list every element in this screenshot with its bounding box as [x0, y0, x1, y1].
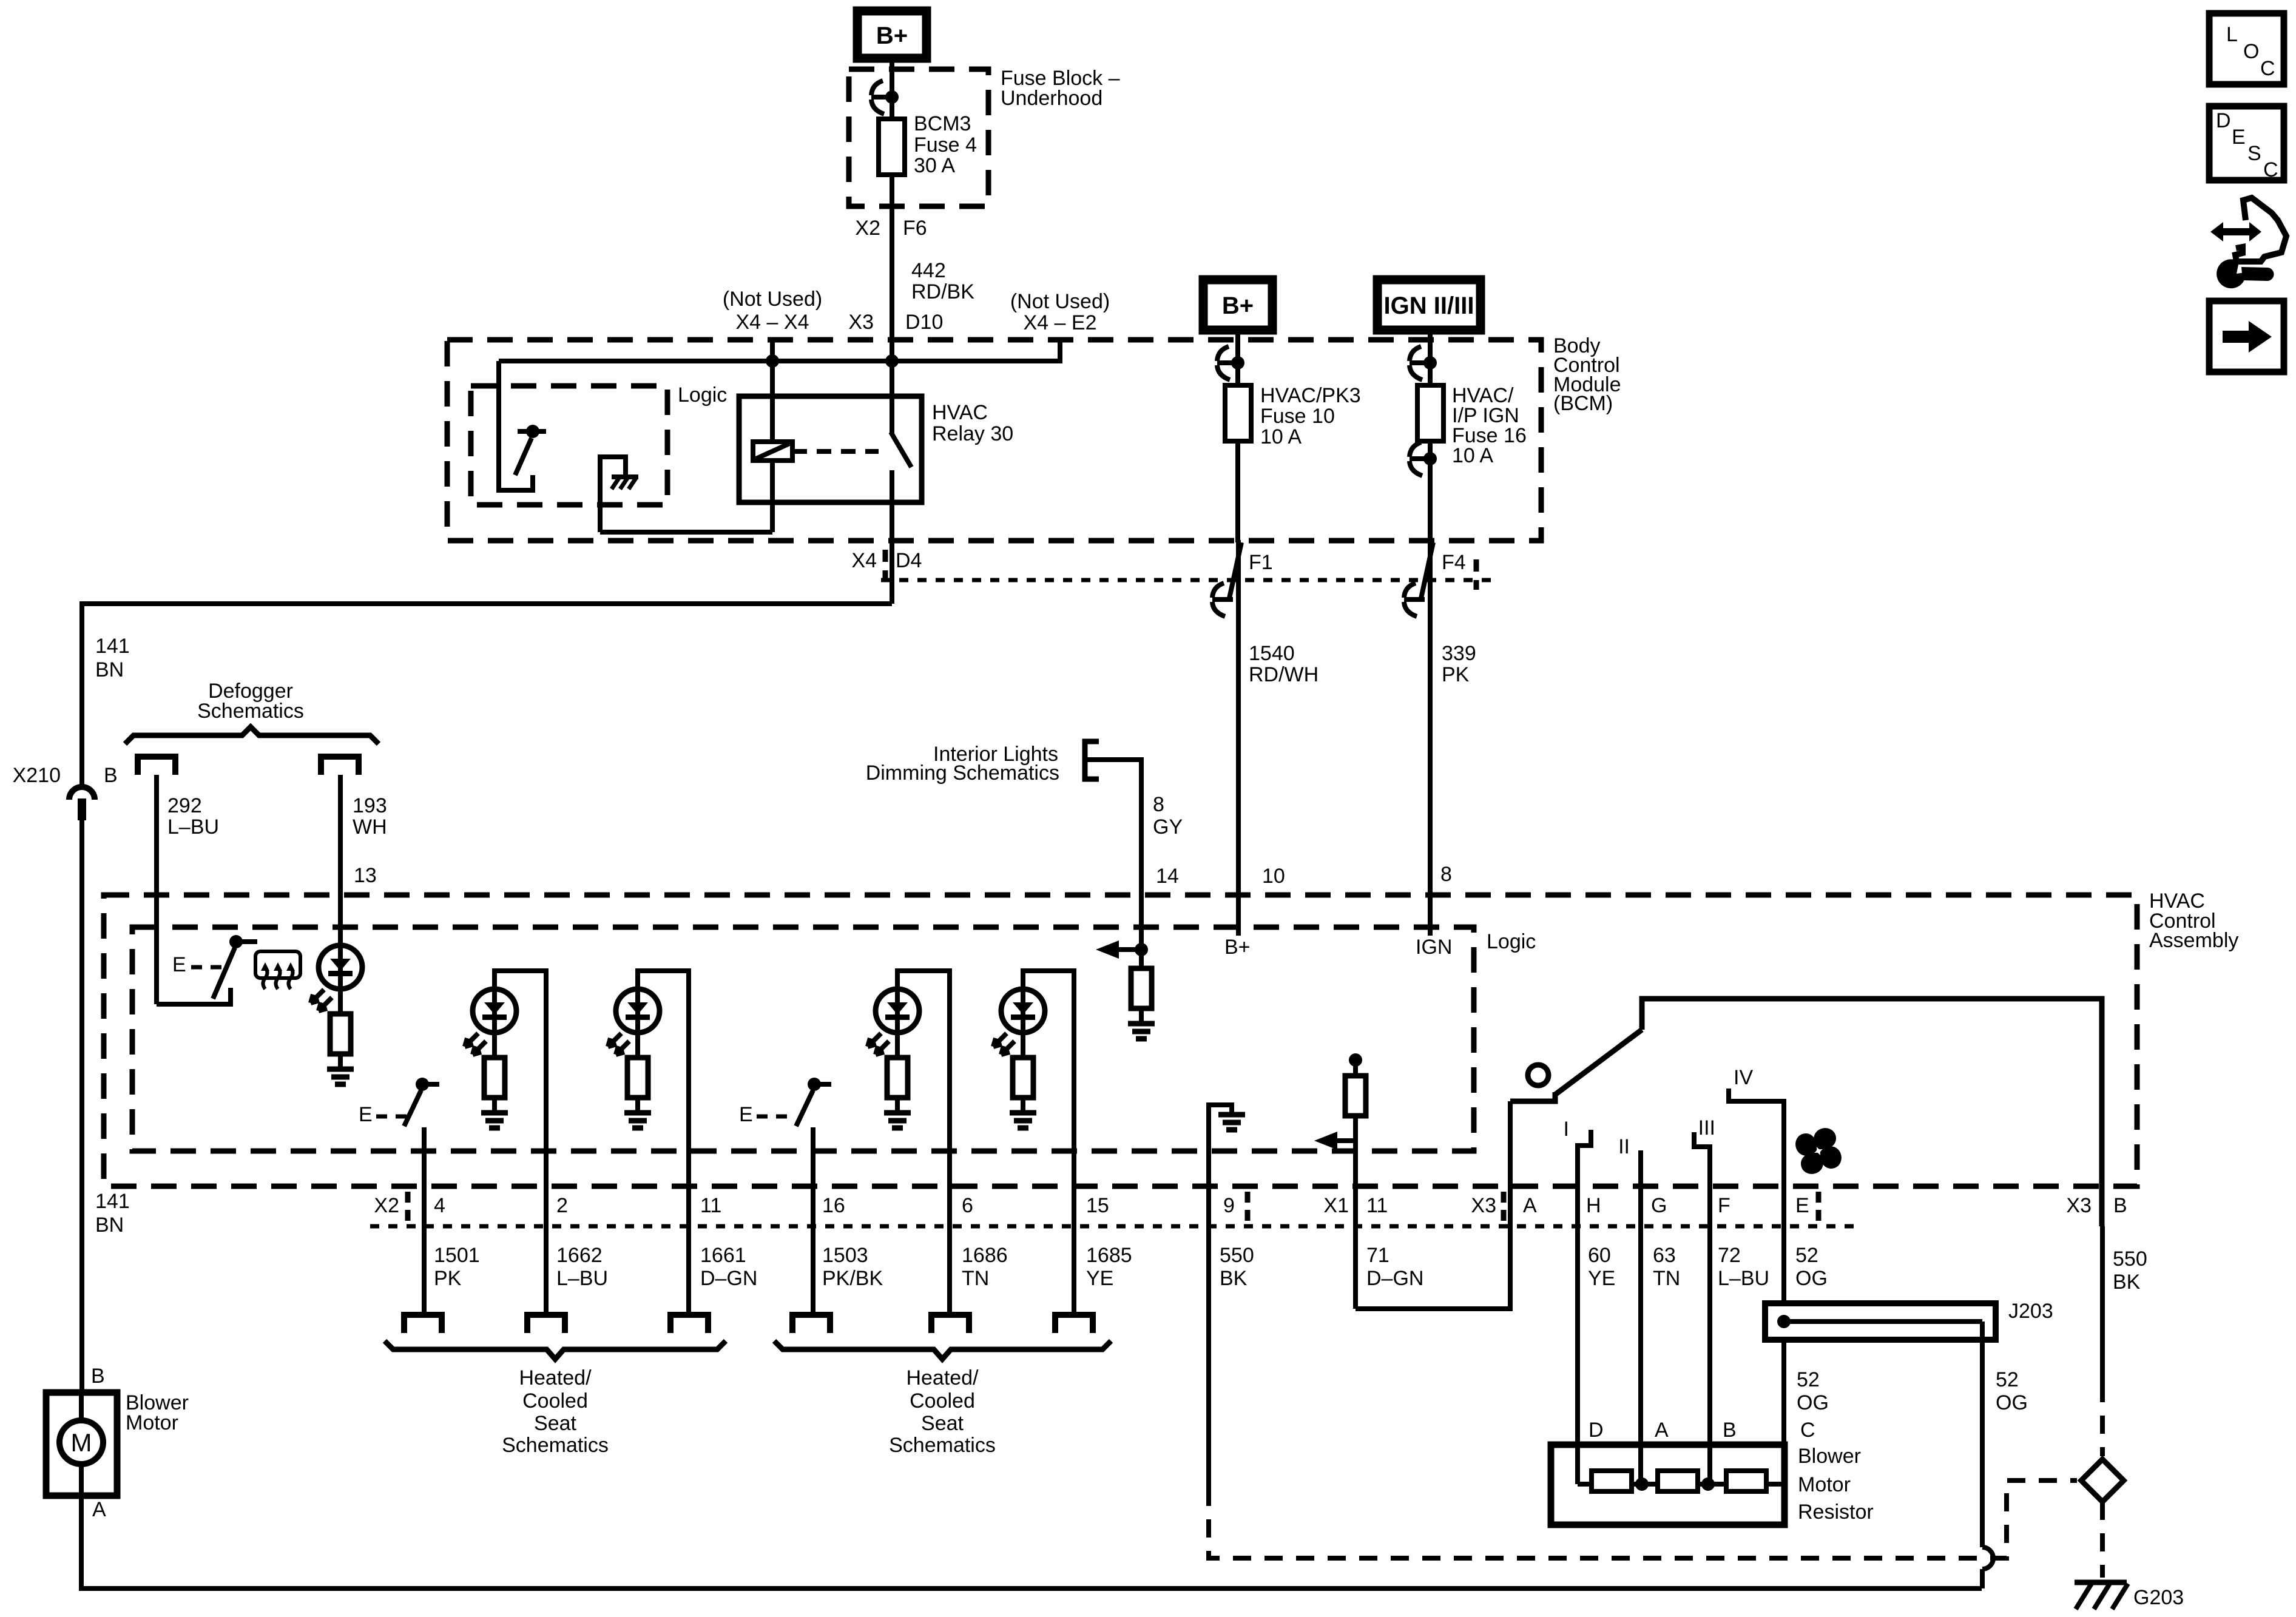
resistor X1-11 [1345, 1076, 1366, 1116]
svg-text:C: C [2260, 57, 2275, 80]
svg-text:Fuse 10: Fuse 10 [1260, 405, 1335, 428]
svg-text:(Not Used): (Not Used) [723, 288, 822, 311]
fuse BCM3 Fuse 4 30 A [879, 119, 905, 175]
terminal pin 6 [931, 1315, 969, 1333]
svg-text:X3: X3 [2066, 1194, 2092, 1217]
svg-text:10 A: 10 A [1260, 425, 1302, 448]
svg-text:63: 63 [1653, 1244, 1676, 1267]
svg-text:Heated/: Heated/ [519, 1366, 592, 1389]
switch for pin 4 [404, 1078, 439, 1312]
svg-text:E: E [1795, 1194, 1809, 1217]
svg-text:OG: OG [1996, 1391, 2028, 1414]
bracket for interior lights [1085, 741, 1099, 779]
svg-text:Blower: Blower [1798, 1445, 1861, 1468]
wire 550 BK right (pin B) [2100, 1226, 2105, 1384]
svg-text:G: G [1651, 1194, 1667, 1217]
wire 8 GY [1085, 760, 1141, 950]
blower motor box [46, 1393, 117, 1496]
svg-text:I: I [1564, 1118, 1569, 1141]
resistor LED4 [1013, 1058, 1033, 1098]
LOC icon box [2209, 13, 2284, 84]
wire LED4 to resistor [1021, 1033, 1025, 1058]
wire hop to bottom bus [1980, 1569, 1985, 1588]
svg-text:Relay 30: Relay 30 [932, 422, 1013, 445]
wire to ground [1021, 1098, 1025, 1110]
terminal pin 15 [1055, 1315, 1093, 1333]
svg-text:J203: J203 [2008, 1300, 2053, 1323]
terminal pin 2 [527, 1315, 565, 1333]
ground LED4 [1010, 1113, 1036, 1128]
indicator LED 4 loop [1023, 971, 1074, 1312]
relay switch [891, 361, 911, 604]
svg-text:X210: X210 [13, 764, 61, 787]
svg-text:E: E [2232, 126, 2246, 149]
splice J203 [1765, 1303, 1996, 1340]
svg-text:Schematics: Schematics [889, 1434, 996, 1457]
svg-text:Logic: Logic [678, 383, 727, 407]
splice diamond [2081, 1459, 2124, 1502]
svg-text:A: A [92, 1498, 106, 1521]
Blower Motor Resistor box [1551, 1445, 1784, 1525]
svg-text:8: 8 [1440, 863, 1452, 886]
svg-text:O: O [2243, 40, 2259, 63]
contact I [1578, 1130, 1591, 1226]
ground run dashed wire [1209, 1480, 2077, 1558]
wire to ground [635, 1098, 640, 1110]
resistor LED1 [484, 1058, 505, 1098]
logic output resistor branch [1349, 1053, 1362, 1067]
svg-text:L–BU: L–BU [167, 815, 219, 839]
svg-text:C: C [2263, 158, 2278, 181]
clip at fuse 16 bottom [1410, 442, 1430, 476]
svg-text:141: 141 [95, 635, 130, 658]
svg-text:1662: 1662 [556, 1244, 603, 1267]
svg-text:Cooled: Cooled [522, 1389, 588, 1413]
wire from B+ box to fuse block [890, 58, 894, 119]
svg-text:IV: IV [1734, 1066, 1753, 1089]
power feed box B+ (top) [857, 11, 927, 58]
brace heated/cooled seat 2 [774, 1341, 1111, 1359]
wire to ground [895, 1098, 900, 1110]
fan icon [1792, 1124, 1846, 1178]
wire 292 L-BU down [154, 775, 159, 1004]
node X4-X4 stub [770, 340, 775, 361]
indicator LED 2 loop [638, 971, 689, 1312]
svg-text:TN: TN [1653, 1267, 1680, 1290]
svg-text:HVAC/PK3: HVAC/PK3 [1260, 384, 1361, 407]
logic switch blade [515, 438, 532, 475]
wire pin A up from U-turn [1356, 1101, 1510, 1309]
svg-text:BK: BK [1220, 1267, 1248, 1290]
svg-text:II: II [1618, 1135, 1630, 1158]
svg-text:PK: PK [1442, 663, 1470, 686]
svg-text:F6: F6 [903, 217, 927, 240]
svg-text:60: 60 [1588, 1244, 1611, 1267]
svg-text:11: 11 [700, 1194, 721, 1217]
svg-text:OG: OG [1795, 1267, 1828, 1290]
connector crossing F4 [1404, 540, 1433, 936]
svg-text:1501: 1501 [434, 1244, 480, 1267]
ground below dimmer resistor [1128, 1024, 1155, 1039]
wire horizontal bus at y595 [499, 359, 892, 363]
svg-text:141: 141 [95, 1190, 130, 1213]
svg-text:Dimming Schematics: Dimming Schematics [866, 761, 1059, 785]
wire B+ down to fuse 10 [1235, 330, 1240, 385]
svg-text:550: 550 [2113, 1247, 2147, 1271]
svg-text:C: C [1800, 1419, 1815, 1442]
svg-text:1503: 1503 [822, 1244, 868, 1267]
svg-text:Schematics: Schematics [197, 700, 304, 723]
svg-text:L–BU: L–BU [556, 1267, 608, 1290]
terminal 193 [321, 757, 359, 775]
blower switch body [1510, 1092, 1555, 1101]
wire to ground [492, 1098, 497, 1110]
svg-text:D–GN: D–GN [700, 1267, 757, 1290]
hop over dashed wire [1982, 1547, 1993, 1569]
svg-text:D10: D10 [905, 311, 943, 334]
defogger indicator LED [311, 945, 362, 1011]
clip at fuse 10 top [1217, 346, 1238, 380]
service info icon (arrow, outline, wrench) [2210, 198, 2286, 288]
wire LED3 to resistor [895, 1033, 900, 1058]
svg-text:X3: X3 [848, 311, 874, 334]
svg-text:RD/WH: RD/WH [1249, 663, 1319, 686]
DESC icon box [2209, 106, 2284, 181]
chassis ground stub in logic box [600, 457, 626, 532]
Body Control Module dashed box [447, 340, 1541, 541]
ground below defogger LED [327, 1069, 354, 1084]
svg-text:193: 193 [353, 794, 387, 817]
svg-text:52: 52 [1996, 1368, 2019, 1391]
svg-text:WH: WH [353, 815, 387, 839]
switch blade [1555, 1030, 1642, 1095]
svg-text:B+: B+ [1224, 936, 1251, 959]
svg-text:Schematics: Schematics [502, 1434, 609, 1457]
svg-text:550: 550 [1220, 1244, 1254, 1267]
wire from ground stub to relay coil return [600, 530, 772, 535]
svg-text:B: B [1723, 1419, 1737, 1442]
svg-text:1540: 1540 [1249, 642, 1295, 665]
svg-text:E: E [739, 1103, 753, 1126]
terminal pin 11 [670, 1315, 708, 1333]
wire from relay to X210 branch [82, 604, 892, 786]
svg-text:X2: X2 [855, 217, 880, 240]
svg-text:6: 6 [962, 1194, 973, 1217]
svg-text:442: 442 [911, 259, 946, 282]
svg-text:RD/BK: RD/BK [911, 280, 974, 303]
svg-text:Logic: Logic [1487, 930, 1536, 953]
svg-text:A: A [1655, 1419, 1669, 1442]
wire stub to X4-E2 [892, 340, 1060, 361]
wire H to resistor D [1575, 1226, 1580, 1484]
svg-text:A: A [1523, 1194, 1537, 1217]
wire G to resistor A [1638, 1226, 1643, 1484]
svg-text:F1: F1 [1249, 551, 1273, 574]
ground branch pin 9 [1209, 1105, 1232, 1488]
svg-text:339: 339 [1442, 642, 1476, 665]
svg-text:B: B [104, 764, 118, 787]
wire LED2 to resistor [635, 1033, 640, 1058]
svg-text:Heated/: Heated/ [906, 1366, 979, 1389]
fuse HVAC/PK3 Fuse 10 10 A [1225, 385, 1251, 441]
wire from X210 to blower motor [79, 820, 84, 1393]
wire LED to resistor [338, 989, 343, 1014]
switch pivot circle [1528, 1065, 1548, 1085]
svg-text:X2: X2 [374, 1194, 399, 1217]
svg-text:GY: GY [1153, 815, 1183, 839]
svg-text:B: B [2113, 1194, 2127, 1217]
HVAC Relay 30 box [739, 396, 922, 502]
svg-text:52: 52 [1797, 1368, 1820, 1391]
ground LED1 [481, 1113, 508, 1128]
svg-text:G203: G203 [2133, 1586, 2184, 1609]
wire F to resistor B [1707, 1226, 1712, 1484]
wire C from J203 to resistor box [1781, 1340, 1786, 1445]
terminal pin 16 [792, 1315, 830, 1333]
ground LED2 [624, 1113, 651, 1128]
svg-text:X1: X1 [1323, 1194, 1349, 1217]
svg-text:15: 15 [1086, 1194, 1109, 1217]
svg-text:M: M [71, 1428, 92, 1457]
wire down into logic box [499, 361, 533, 490]
svg-text:E: E [172, 953, 186, 976]
connector dotted line at y995 right part [881, 578, 1496, 582]
svg-text:F4: F4 [1442, 551, 1466, 574]
wire from fuse down through X2/F6 [890, 175, 894, 361]
dimmer input arrow [1096, 940, 1148, 959]
svg-text:IGN II/III: IGN II/III [1384, 292, 1474, 319]
svg-text:4: 4 [434, 1194, 445, 1217]
terminal pin 4 [404, 1315, 442, 1333]
svg-text:X4 – X4: X4 – X4 [736, 311, 809, 334]
svg-text:B+: B+ [876, 22, 908, 49]
contact IV [1729, 1089, 1784, 1303]
wire fuse10 down to BCM edge [1235, 441, 1240, 542]
svg-text:11: 11 [1366, 1194, 1388, 1217]
power feed box IGN II/III [1377, 280, 1481, 330]
svg-text:52: 52 [1795, 1244, 1818, 1267]
svg-text:1686: 1686 [962, 1244, 1008, 1267]
dashed 550 BK to diamond [2100, 1384, 2105, 1456]
svg-text:E: E [359, 1103, 373, 1126]
chassis ground pin9 [1218, 1115, 1245, 1130]
next-page arrow icon box [2209, 301, 2284, 372]
brace for defogger schematics [125, 727, 379, 744]
svg-text:F: F [1718, 1194, 1730, 1217]
resistor chain inside [1578, 1471, 1784, 1491]
clip at fuse top [871, 81, 892, 114]
svg-text:2: 2 [556, 1194, 568, 1217]
svg-text:14: 14 [1156, 865, 1179, 888]
svg-text:(Not Used): (Not Used) [1010, 290, 1110, 313]
Logic dashed box inside BCM [471, 386, 667, 505]
resistor LED2 [627, 1058, 648, 1098]
svg-text:L–BU: L–BU [1718, 1267, 1769, 1290]
svg-text:BCM3: BCM3 [914, 112, 971, 135]
svg-text:BK: BK [2113, 1271, 2141, 1294]
svg-text:Fuse 4: Fuse 4 [914, 133, 977, 157]
relay coil [753, 361, 792, 532]
power feed box B+ (BCM) [1203, 280, 1272, 330]
wire 193 WH down [338, 775, 343, 989]
svg-text:13: 13 [354, 864, 377, 887]
svg-text:1661: 1661 [700, 1244, 746, 1267]
fuse HVAC/ I/P IGN Fuse 16 10 A [1417, 385, 1443, 441]
svg-text:71: 71 [1366, 1244, 1389, 1267]
svg-text:16: 16 [822, 1194, 845, 1217]
junction dot left [766, 354, 779, 368]
svg-text:X4: X4 [851, 549, 877, 572]
inline connector X210 [69, 787, 95, 820]
chassis ground hatch [612, 477, 638, 489]
svg-text:(BCM): (BCM) [1553, 392, 1613, 415]
wire to ground [338, 1054, 343, 1067]
svg-text:YE: YE [1086, 1267, 1113, 1290]
svg-text:10: 10 [1262, 865, 1285, 888]
clip at fuse 16 top [1410, 346, 1430, 380]
svg-text:B+: B+ [1222, 292, 1254, 319]
connector dotted line X2/X1/X3 [370, 1224, 1857, 1229]
switch rail [1642, 999, 2102, 1226]
resistor below defogger LED [330, 1014, 351, 1054]
svg-text:Resistor: Resistor [1798, 1501, 1874, 1524]
junction node at fuse top [885, 90, 899, 104]
svg-text:D: D [2216, 109, 2231, 132]
blower control arrow [1314, 1132, 1356, 1150]
svg-text:III: III [1698, 1116, 1715, 1139]
svg-text:OG: OG [1797, 1391, 1829, 1414]
svg-text:H: H [1586, 1194, 1601, 1217]
resistor LED3 [887, 1058, 908, 1098]
Fuse Block - Underhood dashed box [849, 69, 988, 206]
resistor below dimmer node [1139, 950, 1144, 968]
svg-text:BN: BN [95, 1214, 124, 1237]
svg-text:TN: TN [962, 1267, 989, 1290]
svg-text:B: B [91, 1365, 105, 1388]
svg-text:HVAC: HVAC [932, 401, 988, 424]
contact II [1638, 1150, 1643, 1226]
HVAC Control Assembly outer dashed box [104, 895, 2137, 1186]
terminal 292 [138, 757, 175, 775]
ground LED3 [884, 1113, 911, 1128]
svg-text:Motor: Motor [126, 1411, 178, 1434]
wire to ground [1139, 1008, 1144, 1021]
svg-text:D4: D4 [896, 549, 922, 572]
wire IGN down to fuse 16 [1428, 330, 1433, 385]
svg-text:9: 9 [1223, 1194, 1235, 1217]
svg-text:X3: X3 [1471, 1194, 1496, 1217]
contact III [1694, 1132, 1710, 1226]
svg-text:D–GN: D–GN [1366, 1267, 1423, 1290]
svg-text:S: S [2247, 142, 2261, 165]
logic switch tick and dot [518, 429, 546, 434]
switch for pin 16 [796, 1078, 831, 1312]
indicator LED 3 loop [897, 971, 950, 1312]
ground G203 [2075, 1582, 2128, 1609]
wire fuse16 down to BCM edge [1428, 441, 1433, 542]
connector crossing F1 [1212, 540, 1241, 936]
svg-text:30 A: 30 A [914, 154, 955, 177]
svg-text:X4 – E2: X4 – E2 [1024, 311, 1097, 334]
rear defogger heater icon [255, 951, 300, 989]
svg-text:Underhood: Underhood [1001, 87, 1102, 110]
defogger switch [157, 935, 257, 1004]
wire pin11 to terminal [686, 1226, 691, 1312]
junction dot right [885, 354, 899, 368]
wire LED1 to resistor [492, 1033, 497, 1058]
connector mark between X4 and D4 [883, 550, 888, 580]
svg-text:IGN: IGN [1416, 936, 1452, 959]
wire 52 OG from J203 down [1980, 1322, 1985, 1547]
connector mark right of F4 [1474, 559, 1479, 590]
HVAC inner logic dashed box [132, 927, 1474, 1151]
motor symbol [59, 1393, 103, 1496]
svg-text:PK/BK: PK/BK [822, 1267, 883, 1290]
svg-text:D: D [1589, 1419, 1604, 1442]
svg-text:BN: BN [95, 658, 124, 681]
svg-text:292: 292 [167, 794, 202, 817]
svg-text:Assembly: Assembly [2149, 929, 2238, 952]
svg-text:Motor: Motor [1798, 1473, 1851, 1496]
svg-text:Seat: Seat [534, 1412, 576, 1435]
svg-text:Seat: Seat [921, 1412, 964, 1435]
svg-text:10 A: 10 A [1452, 444, 1493, 467]
svg-text:1685: 1685 [1086, 1244, 1132, 1267]
relay dashed link [792, 449, 879, 454]
svg-text:PK: PK [434, 1267, 462, 1290]
svg-text:8: 8 [1153, 793, 1164, 816]
indicator LED 1 loop [495, 971, 546, 1312]
wire motor A to bottom bus [81, 1496, 1982, 1588]
svg-text:Cooled: Cooled [910, 1389, 975, 1413]
brace heated/cooled seat 1 [385, 1341, 726, 1359]
svg-text:72: 72 [1718, 1244, 1741, 1267]
svg-text:YE: YE [1588, 1267, 1615, 1290]
dashed diamond to ground [2100, 1502, 2105, 1578]
svg-text:L: L [2226, 23, 2238, 46]
